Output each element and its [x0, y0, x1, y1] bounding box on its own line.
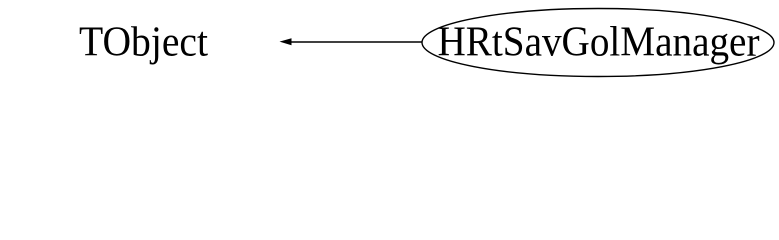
svg-text:HRtSavGolManager: HRtSavGolManager: [438, 20, 760, 66]
svg-text:TObject: TObject: [79, 20, 208, 66]
wire arrow shaft: [291, 41, 422, 43]
node ellipse HRtSavGolManager: [422, 9, 774, 77]
arrowhead: [280, 38, 292, 45]
